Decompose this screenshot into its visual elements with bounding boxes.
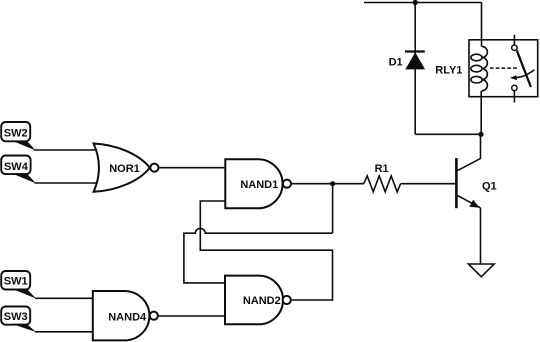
label SW3 [1, 307, 36, 333]
wire SW1 to NAND4 top input [35, 297, 93, 299]
node junction collector / relay coil [478, 132, 483, 137]
label SW4 [1, 156, 36, 184]
wire SW4 to NOR1 bottom input [35, 182, 99, 184]
svg-text:SW4: SW4 [4, 161, 29, 173]
diode D1 [405, 52, 425, 69]
node junction top rail / diode [413, 0, 418, 5]
wire NAND4 output to NAND2 bottom input [158, 315, 225, 317]
relay RLY1 contact top terminal [512, 35, 517, 51]
label NAND4 [108, 312, 147, 324]
svg-text:D1: D1 [389, 57, 403, 69]
relay RLY1 dashed actuator line [490, 67, 518, 69]
wire SW2 to NOR1 top input [34, 149, 100, 151]
wire Q1 collector riser [480, 134, 482, 159]
resistor R1 [364, 176, 401, 192]
label RLY1 [435, 64, 462, 76]
wire R1 to Q1 base [401, 183, 457, 185]
svg-text:SW3: SW3 [4, 311, 28, 323]
label D1 [389, 57, 403, 69]
wire Q1 emitter to ground [480, 208, 482, 264]
label R1 [375, 163, 389, 175]
wire feedback NAND1 to NAND2 with hop [184, 229, 333, 283]
gate NAND1 [225, 159, 291, 208]
gate NAND2 [225, 276, 291, 325]
transistor Q1 [456, 158, 480, 208]
label Q1 [482, 180, 497, 192]
relay RLY1 contact bottom terminal [512, 85, 517, 102]
svg-text:R1: R1 [375, 163, 389, 175]
svg-text:SW1: SW1 [4, 276, 28, 288]
wire top supply rail [364, 2, 482, 4]
svg-text:SW2: SW2 [4, 128, 28, 140]
wire NAND1 output [291, 183, 333, 185]
node junction NAND1 output [330, 181, 335, 186]
gate NAND4 [93, 291, 158, 340]
svg-text:NAND4: NAND4 [108, 312, 147, 324]
wire diode branch vertical [414, 3, 416, 135]
label SW2 [1, 122, 35, 150]
label NAND1 [240, 179, 278, 191]
svg-text:Q1: Q1 [482, 180, 497, 192]
gate NOR1 [94, 144, 159, 192]
wire relay coil bottom drop [480, 91, 482, 135]
label NOR1 [109, 163, 140, 175]
svg-text:NOR1: NOR1 [109, 163, 140, 175]
relay RLY1 coil [471, 46, 488, 90]
relay RLY1 actuator arrow [510, 70, 535, 80]
label NAND2 [243, 295, 281, 307]
wire NAND1 output to R1 [333, 183, 364, 185]
svg-text:RLY1: RLY1 [435, 64, 462, 76]
wire SW3 to NAND4 bottom input [35, 331, 93, 333]
wire NAND2 output riser [200, 201, 332, 300]
wire NAND1 output feedback down [332, 184, 334, 234]
wire relay coil top drop [481, 3, 483, 47]
svg-text:NAND2: NAND2 [243, 295, 281, 307]
wire NOR1 output to NAND1 top input [159, 167, 226, 169]
svg-text:NAND1: NAND1 [240, 179, 278, 191]
wire bottom horizontal diode to collector [415, 133, 481, 135]
relay RLY1 switch blade [517, 51, 531, 88]
label SW1 [1, 271, 36, 299]
relay RLY1 box [469, 40, 538, 97]
ground [468, 264, 494, 277]
